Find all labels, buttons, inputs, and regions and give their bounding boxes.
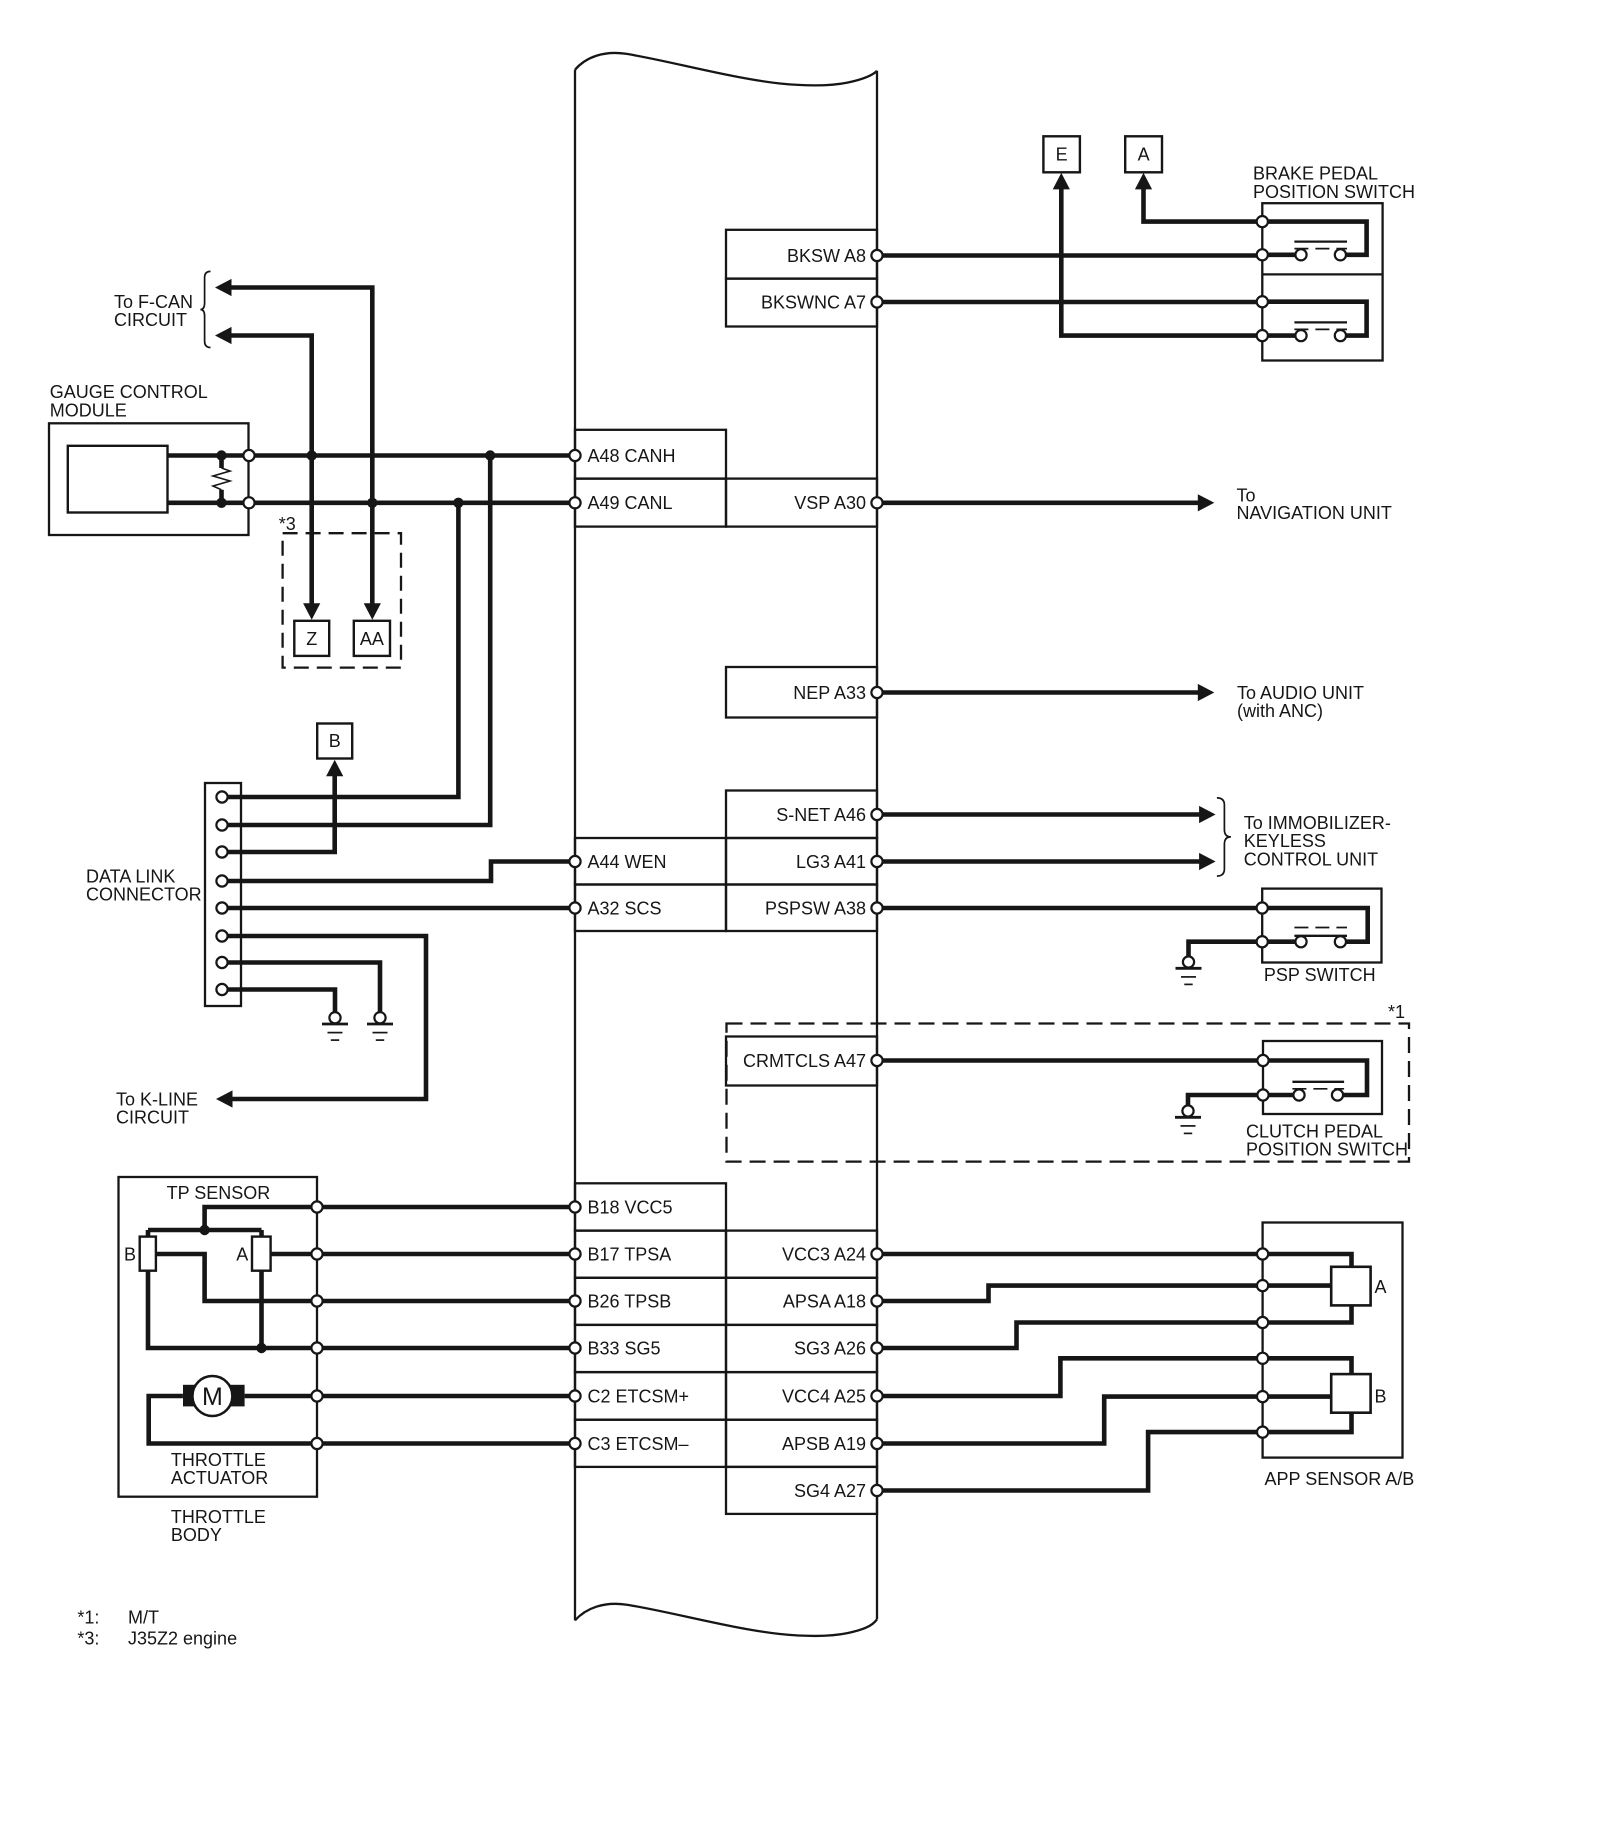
svg-text:*3:: *3: [77, 1629, 99, 1649]
wire C3 ETCSM- to motor [149, 1396, 575, 1444]
throttle body outer box [119, 1177, 318, 1545]
svg-text:To K-LINE: To K-LINE [116, 1090, 198, 1110]
wire DLC pin7 to ground [222, 963, 380, 1013]
svg-text:B26 TPSB: B26 TPSB [588, 1291, 672, 1311]
svg-text:DATA LINK: DATA LINK [86, 867, 175, 887]
label To F-CAN CIRCUIT [114, 292, 193, 330]
clutch pedal position switch box [1246, 1041, 1408, 1160]
wire DLC pin3 to connector B [222, 760, 343, 852]
pin box A49 CANL [575, 479, 726, 527]
svg-text:To F-CAN: To F-CAN [114, 292, 193, 312]
pin box B17 TPSA [575, 1231, 726, 1278]
connector Z box [294, 621, 329, 656]
PSP switch box [1262, 889, 1381, 985]
wire VCC3 A24 to APP sensor A [877, 1254, 1352, 1267]
TP sensor element B [124, 1237, 156, 1271]
svg-text:CIRCUIT: CIRCUIT [116, 1108, 189, 1128]
svg-text:POSITION SWITCH: POSITION SWITCH [1246, 1140, 1408, 1160]
wire NEP A33 to audio unit [877, 684, 1214, 701]
pin box SG3 A26 [726, 1325, 877, 1372]
wire A48 CANH (gauge to ECM) [168, 453, 576, 458]
pin box S-NET A46 [726, 791, 877, 839]
ground G1 (DLC pin7) [367, 1012, 393, 1040]
svg-text:NEP A33: NEP A33 [793, 683, 866, 703]
svg-text:*1: *1 [1388, 1002, 1405, 1022]
wire DLC pin4 to A44 WEN [222, 862, 575, 882]
svg-text:THROTTLE: THROTTLE [171, 1507, 266, 1527]
wire to F-CAN lower (CANL branch) with connector Z drop [215, 327, 320, 620]
label To IMMOBILIZER-KEYLESS CONTROL UNIT [1244, 813, 1391, 869]
wire BKSWNC A7 to brake switch [877, 300, 1262, 305]
svg-text:To IMMOBILIZER-: To IMMOBILIZER- [1244, 813, 1391, 833]
svg-text:VCC3 A24: VCC3 A24 [782, 1244, 866, 1264]
pin box A48 CANH [575, 430, 726, 479]
svg-text:BKSWNC A7: BKSWNC A7 [761, 292, 866, 312]
svg-text:LG3 A41: LG3 A41 [796, 852, 866, 872]
svg-text:ACTUATOR: ACTUATOR [171, 1468, 268, 1488]
wire SG3 A26 from APP sensor A [877, 1305, 1352, 1348]
svg-text:M: M [202, 1383, 223, 1411]
wire A49 CANL (gauge to ECM) [168, 500, 576, 505]
svg-text:BRAKE PEDAL: BRAKE PEDAL [1253, 164, 1378, 184]
svg-text:NAVIGATION UNIT: NAVIGATION UNIT [1237, 503, 1392, 523]
ECM left edge terminals [569, 450, 580, 1449]
wire B18 VCC5 to TP sensor supply [148, 1207, 575, 1237]
gauge control module outer box [49, 382, 249, 535]
throttle actuator motor [183, 1376, 245, 1416]
svg-text:A48 CANH: A48 CANH [588, 446, 676, 466]
svg-text:A: A [236, 1244, 248, 1264]
ground G2 (DLC pin8) [322, 1012, 348, 1040]
wire APSA A18 from APP sensor A [877, 1286, 1331, 1301]
wire DLC pin2 to A48 CANH [222, 450, 495, 825]
label To AUDIO UNIT (with ANC) [1237, 683, 1364, 721]
svg-text:A44 WEN: A44 WEN [588, 852, 667, 872]
brake switch lower contacts [1257, 296, 1367, 341]
gauge module terminals [243, 450, 254, 509]
footnotes *1 M/T and *3 J35Z2 engine [77, 1608, 237, 1649]
wire DLC pin5 to A32 SCS [222, 906, 575, 911]
svg-text:BODY: BODY [171, 1525, 222, 1545]
svg-text:CLUTCH PEDAL: CLUTCH PEDAL [1246, 1122, 1383, 1142]
pin box B33 SG5 [575, 1325, 726, 1372]
wire S-NET A46 to immobilizer [877, 806, 1216, 823]
pin box NEP A33 [726, 667, 877, 718]
pin box LG3 A41 [726, 838, 877, 885]
svg-text:APSB A19: APSB A19 [782, 1434, 866, 1454]
svg-text:CIRCUIT: CIRCUIT [114, 310, 187, 330]
clutch switch ground wire [1188, 1095, 1293, 1105]
wire B33 SG5 sensor ground [148, 1271, 575, 1354]
svg-text:A: A [1375, 1277, 1387, 1297]
pin box PSPSW A38 [726, 885, 877, 932]
svg-text:A49 CANL: A49 CANL [588, 493, 673, 513]
svg-text:SG4 A27: SG4 A27 [794, 1481, 866, 1501]
svg-text:To AUDIO UNIT: To AUDIO UNIT [1237, 683, 1364, 703]
pin box B26 TPSB [575, 1278, 726, 1325]
PSP switch contacts [1257, 902, 1347, 947]
svg-text:C3 ETCSM–: C3 ETCSM– [588, 1434, 689, 1454]
svg-text:AA: AA [360, 629, 384, 649]
brake pedal position switch box [1253, 164, 1415, 361]
wire B26 TPSB from sensor B [156, 1254, 575, 1301]
svg-text:POSITION SWITCH: POSITION SWITCH [1253, 182, 1415, 202]
svg-text:PSPSW A38: PSPSW A38 [765, 898, 866, 918]
wire DLC pin6 to K-LINE circuit [216, 936, 426, 1108]
svg-text:(with ANC): (with ANC) [1237, 701, 1323, 721]
data link connector body [86, 783, 241, 1006]
ECM/PCM connector band (torn-edge outline) [575, 53, 877, 1636]
wire APSB A19 from APP sensor B [877, 1397, 1331, 1444]
svg-text:CONTROL UNIT: CONTROL UNIT [1244, 849, 1378, 869]
svg-text:A: A [1138, 145, 1150, 165]
wire C2 ETCSM+ to motor [245, 1394, 575, 1399]
brace to immobilizer-keyless control unit [1217, 798, 1231, 876]
pin box APSB A19 [726, 1420, 877, 1467]
pin box APSA A18 [726, 1278, 877, 1325]
wire VSP A30 to navigation unit [877, 494, 1214, 511]
svg-text:SG3 A26: SG3 A26 [794, 1338, 866, 1358]
svg-text:TP SENSOR: TP SENSOR [167, 1183, 271, 1203]
pin box A44 WEN [575, 838, 726, 885]
svg-text:B: B [124, 1244, 136, 1264]
connector A box [1125, 136, 1162, 172]
pin box C2 ETCSM+ [575, 1372, 726, 1420]
wire connector E to brake switch lower [1053, 173, 1263, 336]
gauge control module inner unit [68, 446, 168, 513]
wire SG4 A27 from APP sensor B [877, 1413, 1352, 1491]
svg-text:THROTTLE: THROTTLE [171, 1450, 266, 1470]
svg-text:VCC4 A25: VCC4 A25 [782, 1386, 866, 1406]
dashed box *3 (J35Z2 engine option) [279, 514, 401, 668]
pin box C3 ETCSM– [575, 1420, 726, 1467]
wire CRMTCLS A47 to clutch switch [877, 1061, 1367, 1096]
wire B17 TPSA from sensor A [271, 1252, 575, 1257]
brake switch upper contacts [1257, 216, 1367, 260]
APP sensor terminals [1257, 1248, 1268, 1437]
connector E box [1043, 136, 1080, 172]
svg-text:*3: *3 [279, 514, 296, 534]
APP sensor element B [1331, 1374, 1386, 1413]
svg-text:CRMTCLS A47: CRMTCLS A47 [743, 1051, 866, 1071]
svg-text:M/T: M/T [128, 1608, 159, 1628]
connector AA box [354, 621, 390, 656]
svg-text:B33 SG5: B33 SG5 [588, 1338, 661, 1358]
DLC pin terminals [216, 791, 227, 995]
svg-text:C2 ETCSM+: C2 ETCSM+ [588, 1386, 690, 1406]
svg-text:B: B [329, 731, 341, 751]
pin box VCC3 A24 [726, 1231, 877, 1278]
svg-text:A32 SCS: A32 SCS [588, 898, 662, 918]
label To NAVIGATION UNIT [1237, 486, 1392, 524]
wire to F-CAN upper (CANH branch) with connector AA drop [215, 279, 381, 620]
TP sensor element A [236, 1237, 270, 1271]
wire PSPSW A38 to PSP switch [877, 908, 1368, 942]
pin box CRMTCLS A47 [726, 1037, 877, 1086]
svg-text:*1:: *1: [77, 1608, 99, 1628]
svg-text:APSA A18: APSA A18 [783, 1291, 866, 1311]
svg-text:PSP SWITCH: PSP SWITCH [1264, 965, 1376, 985]
wire DLC pin8 to ground [222, 990, 335, 1013]
svg-text:CONNECTOR: CONNECTOR [86, 885, 202, 905]
wire connector A to brake switch upper [1135, 173, 1262, 222]
brace To F-CAN [200, 271, 210, 347]
svg-text:KEYLESS: KEYLESS [1244, 831, 1326, 851]
APP sensor element A [1331, 1267, 1386, 1306]
dashed box *1 (M/T option) [727, 1002, 1410, 1162]
svg-text:BKSW A8: BKSW A8 [787, 246, 866, 266]
connector B box [317, 724, 352, 759]
svg-text:B17 TPSA: B17 TPSA [588, 1244, 672, 1264]
pin box B18 VCC5 [575, 1183, 726, 1230]
APP sensor box [1263, 1223, 1415, 1490]
pin box VSP A30 [726, 479, 877, 527]
ground G4 (clutch switch) [1175, 1105, 1201, 1133]
ECM right edge terminals [871, 250, 882, 1496]
svg-text:B18 VCC5: B18 VCC5 [588, 1197, 673, 1217]
svg-text:E: E [1056, 145, 1068, 165]
CAN termination resistor in gauge module [213, 450, 230, 508]
PSP switch ground wire [1189, 942, 1296, 957]
pin box VCC4 A25 [726, 1372, 877, 1420]
pin box SG4 A27 [726, 1467, 877, 1514]
pin box BKSWNC A7 [726, 279, 877, 327]
wire BKSW A8 to brake switch [877, 253, 1262, 258]
ground G3 (PSP switch) [1176, 956, 1202, 984]
svg-text:APP SENSOR A/B: APP SENSOR A/B [1265, 1469, 1415, 1489]
svg-text:J35Z2 engine: J35Z2 engine [128, 1629, 237, 1649]
pin box A32 SCS [575, 885, 726, 932]
pin box BKSW A8 [726, 230, 877, 279]
wire DLC pin1 to A49 CANL [222, 498, 464, 797]
svg-text:Z: Z [306, 629, 317, 649]
svg-text:GAUGE CONTROL: GAUGE CONTROL [50, 382, 208, 402]
label To K-LINE CIRCUIT [116, 1090, 198, 1128]
svg-text:S-NET A46: S-NET A46 [776, 805, 866, 825]
wire VCC4 A25 to APP sensor B [877, 1358, 1352, 1396]
svg-text:B: B [1375, 1387, 1387, 1407]
svg-text:VSP A30: VSP A30 [794, 493, 866, 513]
throttle body edge terminals [311, 1201, 322, 1449]
svg-text:MODULE: MODULE [50, 400, 127, 420]
wire LG3 A41 to immobilizer [877, 853, 1216, 870]
clutch switch contacts [1257, 1055, 1344, 1101]
